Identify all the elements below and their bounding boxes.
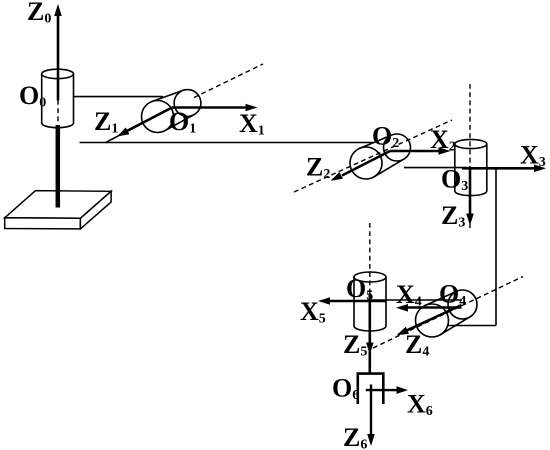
- joint axis J4 dashed: [373, 277, 523, 349]
- axis Z2: [331, 151, 391, 181]
- axis Z4: [397, 305, 462, 335]
- end effector gripper: [358, 374, 384, 404]
- joint cylinder J0: [42, 69, 74, 127]
- axis X6: [366, 386, 408, 394]
- joint axis J3 dashed: [469, 84, 471, 228]
- axis X4: [396, 304, 462, 312]
- joint axis J2 dashed: [294, 120, 452, 192]
- joint cylinder J5: [354, 272, 386, 331]
- axis X5: [318, 297, 386, 305]
- axis Z0: [54, 4, 62, 101]
- axis Z1: [117, 108, 172, 137]
- axis Z0 dashed segment inside J0: [57, 100, 59, 123]
- wire link L3-4 vertical: [495, 168, 497, 325]
- base plate: [5, 191, 111, 229]
- joint axis J1 dashed: [194, 64, 263, 98]
- axis X3: [462, 165, 546, 173]
- joint axis J5 dashed: [369, 223, 371, 293]
- wire link L3-4 horizontal: [447, 325, 496, 327]
- joint cylinder J2: [350, 134, 411, 179]
- wire link L2-3: [404, 167, 470, 169]
- axis Z6: [367, 385, 375, 447]
- pedestal rod: [56, 125, 61, 208]
- joint cylinder J1: [142, 90, 201, 133]
- joint cylinder J4: [416, 290, 478, 337]
- axis X1: [172, 104, 258, 112]
- wire link L0-1: [74, 96, 164, 98]
- axis X2: [390, 147, 451, 155]
- wire long link L1-2: [80, 142, 374, 144]
- joint cylinder J3: [455, 139, 487, 195]
- axis Z3: [466, 168, 474, 225]
- axis Z5: [366, 293, 374, 374]
- wire link L5-4: [370, 299, 462, 301]
- wire Z1 axis thin extension: [106, 136, 120, 143]
